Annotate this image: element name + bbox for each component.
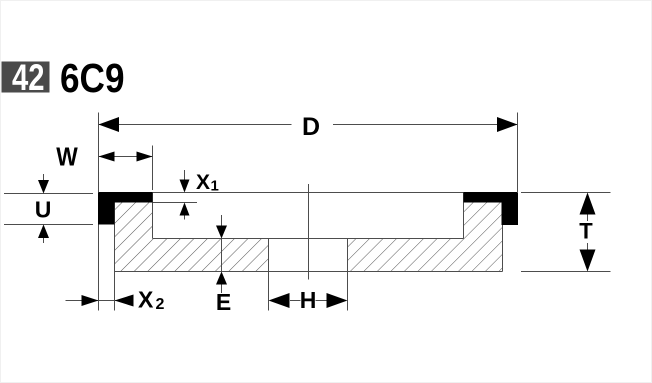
svg-text:6C9: 6C9 [60,55,125,101]
dimension W arrow left [99,152,115,162]
dimension T extension top line [521,192,611,194]
wire core left edge [114,203,116,272]
wheel core hatched right part [348,203,503,272]
dimension X1 measure line [153,202,198,204]
dimension X2 arrow pointing right [82,295,99,306]
dimension X1 upper arrow [184,170,186,181]
dimension D extension line left [98,113,100,193]
dimension U upper arrow [43,174,45,181]
dimension H line right segment [316,300,327,302]
svg-text:E: E [216,289,231,315]
svg-text:2: 2 [156,296,165,313]
dimension X2 line [66,300,134,302]
dimension H arrow left [269,293,290,308]
dimension E upper arrow [221,215,223,227]
wire recess right wall [463,193,465,239]
centerline [308,184,310,280]
dimension H arrow right [327,293,348,308]
svg-text:1: 1 [211,178,219,195]
svg-text:X: X [196,171,210,194]
dimension D arrow right [497,117,518,132]
dimension U extension top line [4,193,93,195]
abrasive segment right (black L) [464,192,519,225]
wire hole right edge [347,239,349,311]
dimension D arrow left [99,117,120,132]
dimension X2 extension line right [114,272,116,311]
wire hole left edge [268,239,270,311]
figure number box 42 [2,62,50,93]
dimension U extension bottom line [4,224,93,226]
dimension X1 lower arrow [184,213,186,220]
dimension X2 extension line left (below wheel) [98,225,100,311]
dimension E lower arrow [216,272,227,285]
svg-text:42: 42 [12,57,45,98]
dimension T lower arrow [580,250,596,272]
svg-text:U: U [35,197,52,223]
wire bottom line [115,271,503,273]
wire recess left wall [152,193,154,239]
dimension T extension bottom line [521,271,611,273]
dimension D line [99,124,292,126]
dimension W extension line right [152,146,154,191]
dimension W arrow right [137,152,153,162]
dimension E line through section [221,239,223,272]
svg-text:H: H [300,287,317,313]
svg-text:X: X [138,287,154,313]
wheel core hatched left part [115,203,269,272]
dimension T upper arrow [580,193,596,215]
dimension H line left segment [290,300,301,302]
svg-text:T: T [579,219,593,244]
wire recess floor line [153,238,464,240]
wire top surface line [99,192,518,194]
wire core right edge [502,203,504,272]
dimension U lower arrow [43,237,45,243]
dimension W line [99,156,153,158]
abrasive segment left (black L) [98,192,153,225]
dimension D extension line right [517,113,519,194]
svg-text:W: W [56,142,78,172]
svg-text:D: D [302,113,320,141]
dimension X2 arrow pointing left [115,295,134,307]
